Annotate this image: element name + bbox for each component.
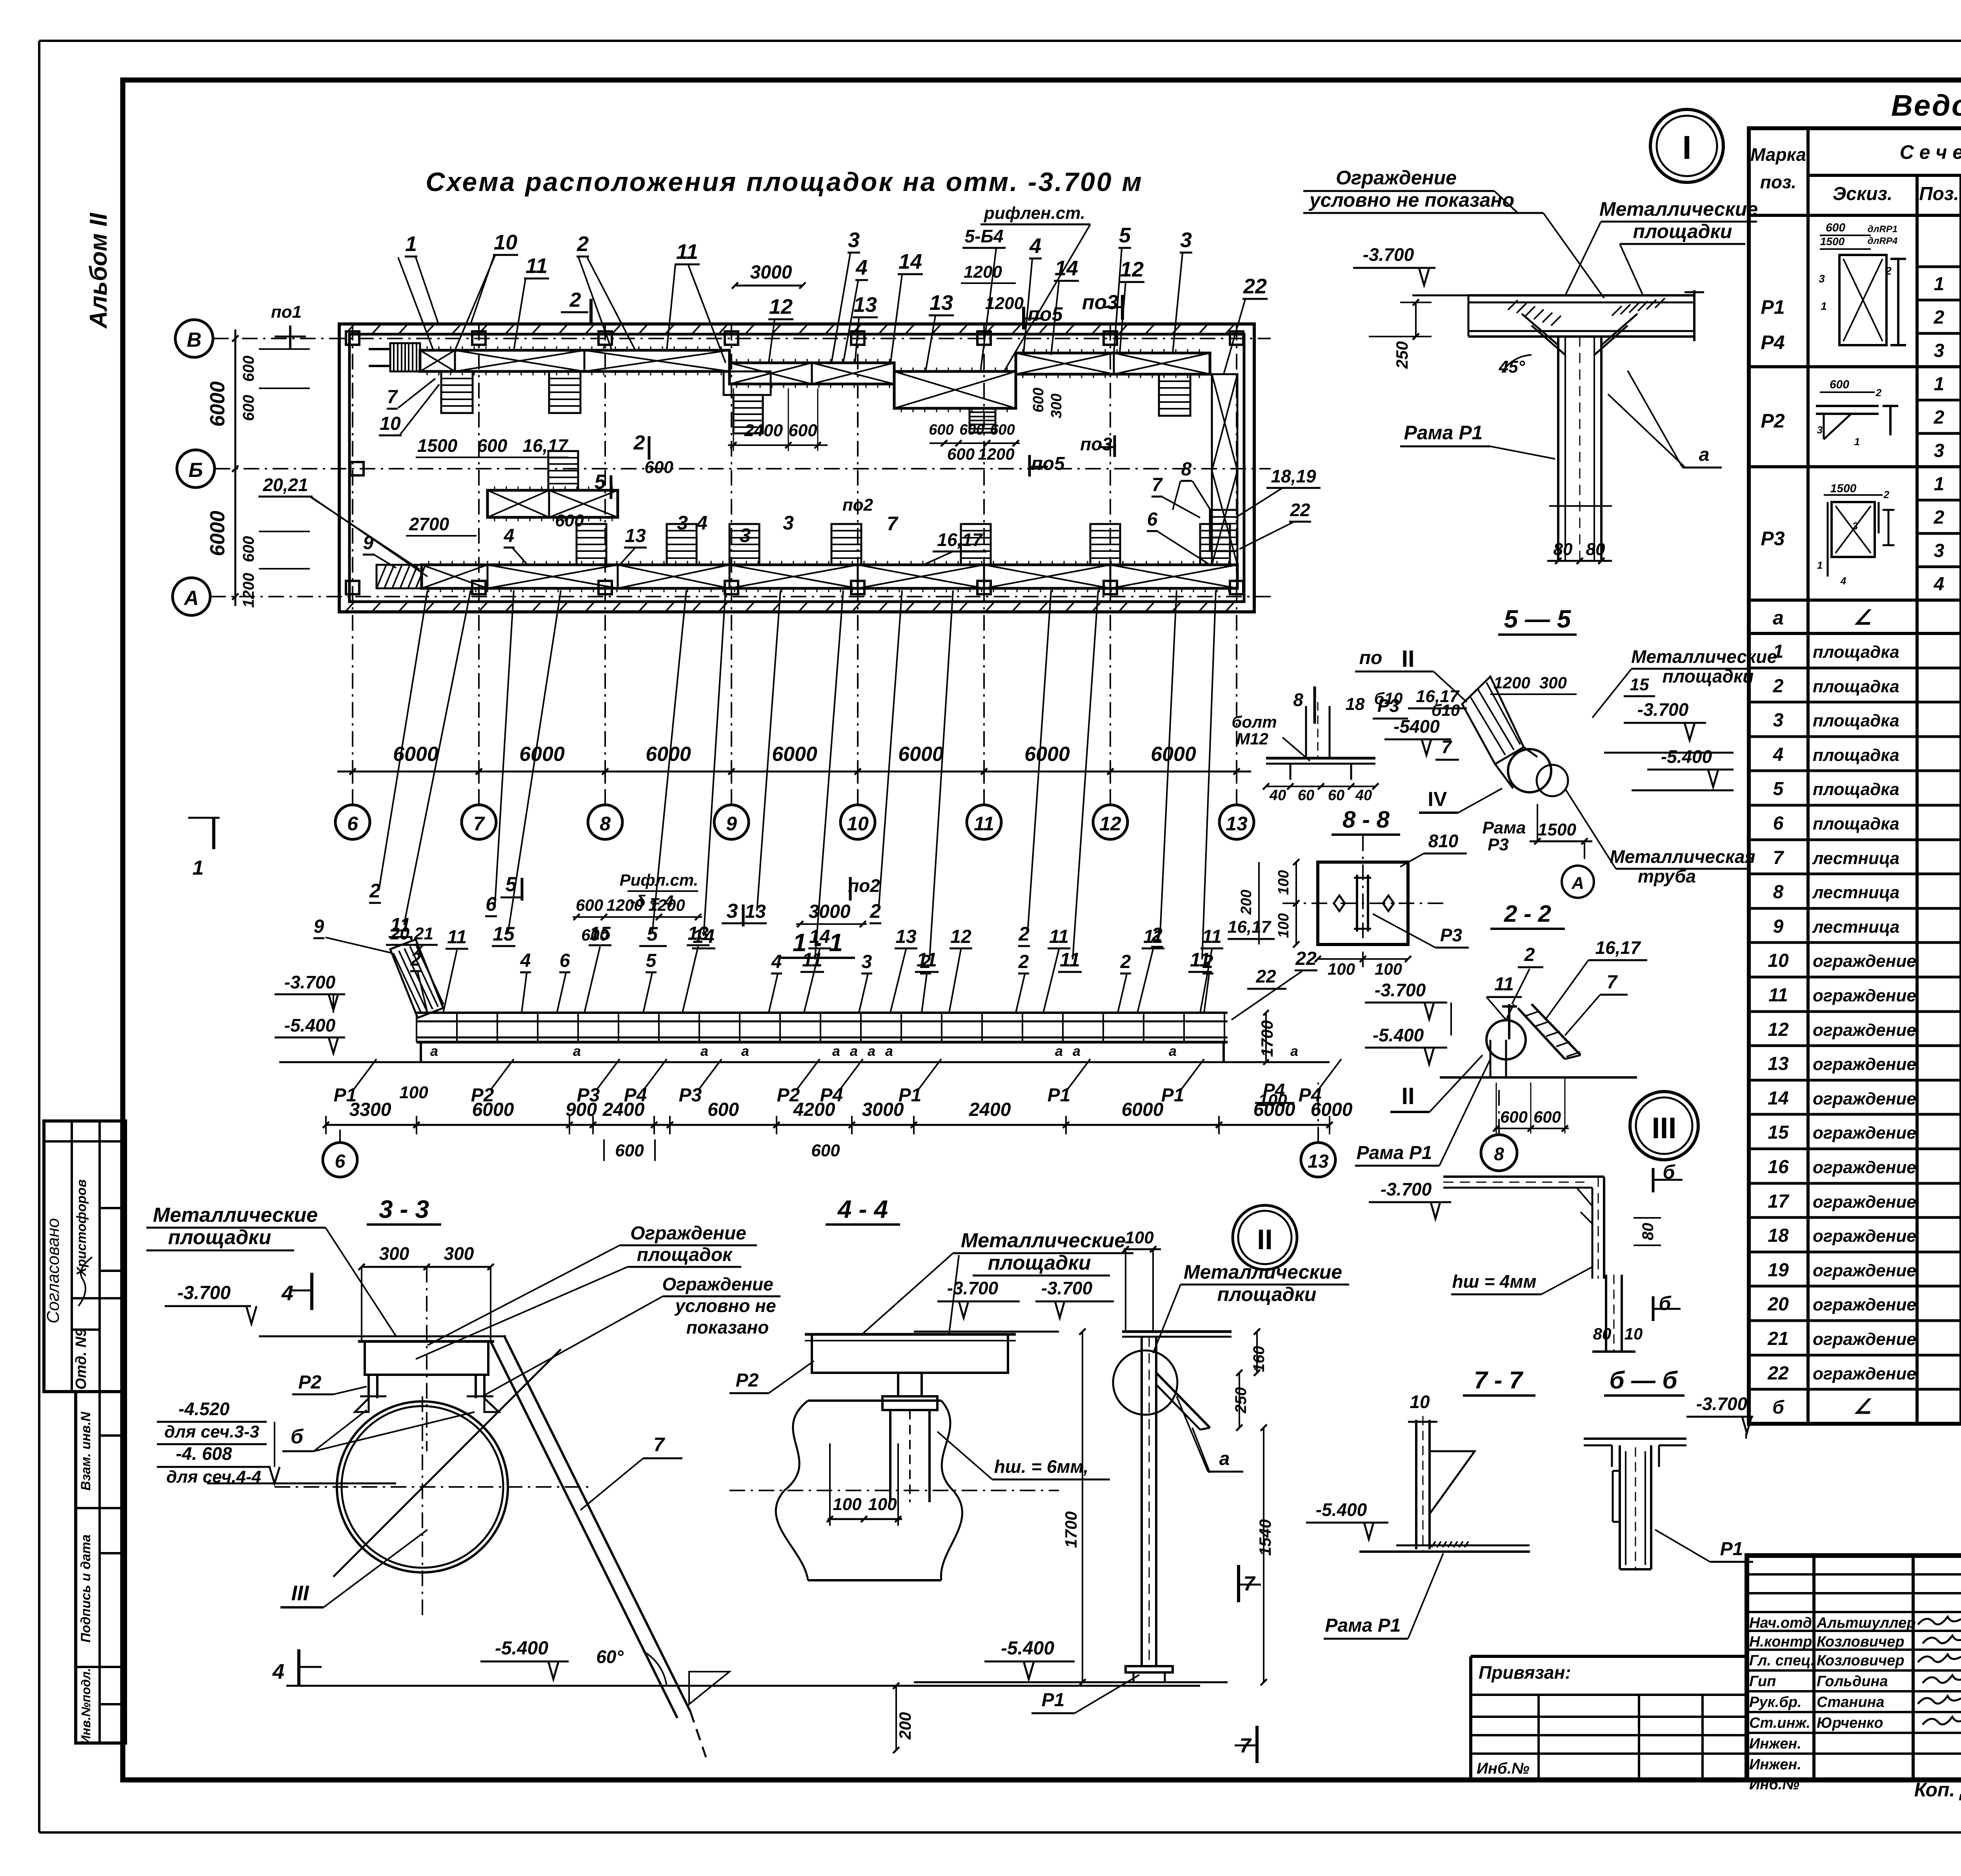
svg-text:Ограждение: Ограждение [630,1223,746,1244]
svg-text:7: 7 [1607,972,1618,993]
svg-text:600: 600 [615,1141,644,1160]
svg-text:Р3: Р3 [1440,925,1463,945]
svg-text:условно не показано: условно не показано [1308,189,1514,211]
svg-text:площадка: площадка [1813,814,1899,833]
section 5-5 title [1498,605,1577,635]
svg-text:а: а [430,1043,438,1059]
svg-text:ограждение: ограждение [1813,1192,1916,1212]
svg-text:300: 300 [379,1243,409,1264]
svg-text:-δ = 4: -δ = 4 [630,892,674,910]
svg-text:-3.700: -3.700 [284,972,336,992]
svg-text:площадка: площадка [1813,780,1899,799]
svg-text:22: 22 [1255,966,1276,986]
upper walkway dropped platform по5 [894,368,1016,412]
svg-text:4: 4 [771,952,782,972]
svg-text:11: 11 [1143,926,1163,947]
svg-text:1500: 1500 [417,435,458,456]
svg-text:600: 600 [929,422,953,438]
stair below dropped platform [970,408,995,433]
svg-text:600: 600 [1826,221,1845,234]
svg-text:4: 4 [504,526,515,546]
plan wall hatch [345,324,1235,612]
svg-text:ограждение: ограждение [1813,1158,1916,1177]
svg-text:ограждение: ограждение [1813,1364,1916,1383]
svg-text:7 - 7: 7 - 7 [1474,1367,1524,1394]
svg-text:3: 3 [1819,273,1825,285]
svg-text:IV: IV [1428,788,1447,811]
svg-text:лестница: лестница [1812,917,1899,937]
misc labels left of middle column [1228,917,1294,1103]
section 5-5 pipe elbow [1462,677,1568,796]
svg-text:10: 10 [380,413,401,434]
svg-text:ограждение: ограждение [1813,1226,1916,1246]
svg-text:5: 5 [1119,224,1131,247]
svg-text:14: 14 [1055,257,1078,280]
table sketch P1 P4 [1819,221,1906,345]
label Ограждение условно не показано I [1303,167,1604,298]
svg-text:В: В [187,329,202,351]
svg-text:2: 2 [410,949,421,970]
svg-text:а: а [700,1043,708,1059]
node II labels and dims [914,1228,1274,1763]
svg-text:Р4: Р4 [1263,1080,1285,1100]
label Металлические площадки 3-3 [146,1204,396,1336]
svg-text:600: 600 [644,458,673,477]
svg-text:1: 1 [405,232,417,256]
svg-text:Металлические: Металлические [961,1229,1126,1252]
svg-text:11: 11 [447,927,467,948]
svg-text:Гл. спец.: Гл. спец. [1749,1652,1815,1669]
svg-text:∠: ∠ [1854,606,1872,629]
svg-text:площадки: площадки [1633,220,1732,242]
svg-text:А: А [1571,873,1584,893]
svg-text:18: 18 [1346,695,1365,714]
svg-text:11: 11 [1049,926,1069,947]
svg-text:по5: по5 [1031,453,1065,474]
lower walkway left ramp [377,565,426,588]
svg-text:11: 11 [1494,974,1514,995]
svg-text:ограждение: ограждение [1813,1055,1916,1074]
svg-text:15: 15 [493,923,515,945]
svg-text:Н.контр.: Н.контр. [1749,1634,1816,1650]
svg-text:Металлические: Металлические [1599,198,1758,220]
svg-text:Схема расположения площадок: Схема расположения площадок на отм. -3.7… [426,167,1143,197]
section 1-1 grid circles [323,1083,1335,1177]
svg-text:10: 10 [494,231,517,254]
svg-text:11: 11 [676,240,698,264]
svg-text:Ст.инж.: Ст.инж. [1749,1715,1810,1731]
svg-text:2: 2 [1202,952,1213,972]
svg-text:Р1: Р1 [1048,1085,1071,1106]
svg-text:3: 3 [1934,340,1945,361]
svg-text:18: 18 [1768,1225,1789,1246]
svg-text:8: 8 [1181,459,1192,480]
node I dims and labels [1369,299,1722,564]
section 7-7 drawing [1306,1392,1530,1639]
svg-text:а: а [832,1043,840,1059]
svg-text:80: 80 [1586,540,1605,559]
section 1-1 leader labels above [313,916,1317,1020]
svg-text:Согласовано: Согласовано [44,1218,63,1323]
section 4-4 platform [805,1334,1016,1502]
svg-text:2400: 2400 [602,1099,645,1120]
row axis Б [177,450,1271,488]
section 3-3 pipe circle [275,1349,588,1620]
svg-text:ограждение: ограждение [1813,1295,1916,1314]
svg-text:Р3: Р3 [1488,835,1509,854]
upper walkway left entry hatch [369,343,420,371]
right wall vertical platform [1210,374,1237,565]
svg-text:площадки: площадки [168,1226,271,1249]
svg-text:Р3: Р3 [1761,528,1785,550]
svg-text:100: 100 [1275,870,1292,895]
svg-text:2: 2 [1934,407,1945,428]
svg-text:600: 600 [1500,1108,1528,1126]
svg-text:3300: 3300 [349,1099,391,1120]
svg-text:15: 15 [589,923,611,944]
section 3-3 angle 60 [596,1647,667,1687]
svg-text:лестница: лестница [1812,883,1899,902]
node III column lower detail [1588,1275,1681,1352]
svg-text:II: II [1401,646,1414,672]
svg-text:б10: б10 [1374,689,1403,708]
node I beam and column [1468,290,1704,561]
svg-text:7: 7 [887,513,899,535]
svg-text:4200: 4200 [793,1099,835,1120]
svg-text:-4.520: -4.520 [178,1399,230,1419]
svg-text:по3: по3 [1082,291,1119,314]
svg-text:600: 600 [1534,1108,1561,1126]
section 6-6 drawing [1584,1385,1753,1569]
section 2-2 labels [1355,937,1647,1171]
svg-text:4: 4 [520,950,531,971]
section 1-1 level marks [275,972,1276,1065]
svg-text:4: 4 [1029,234,1041,258]
svg-text:80: 80 [1593,1325,1612,1343]
svg-text:9: 9 [726,813,737,835]
svg-text:рифлен.ст.: рифлен.ст. [984,204,1085,223]
svg-text:Металлические: Металлические [1631,646,1777,667]
svg-text:Металлические: Металлические [153,1204,318,1226]
svg-text:3: 3 [1817,424,1823,436]
section 1-1 left ladder hatch [390,939,444,1018]
svg-text:6000: 6000 [772,743,817,766]
node I level -3.700 [1353,244,1471,295]
svg-text:600: 600 [990,422,1015,438]
table element rows 1-22 [1767,639,1961,1418]
table sketch P3 [1817,482,1894,587]
svg-text:а: а [1073,1043,1081,1059]
svg-text:600: 600 [811,1141,840,1160]
svg-text:80: 80 [1554,540,1573,559]
section 1-1 railing band [417,1013,1228,1042]
svg-text:Подпись и дата: Подпись и дата [78,1534,93,1643]
svg-text:-3.700: -3.700 [177,1283,231,1303]
svg-text:600: 600 [555,511,584,530]
svg-text:Гольдина: Гольдина [1817,1673,1888,1690]
svg-text:15: 15 [1768,1122,1789,1143]
svg-text:12: 12 [1120,258,1144,281]
bottom baseline of sections [286,1685,1200,1687]
svg-text:1500: 1500 [1820,235,1845,247]
svg-text:Инб.№: Инб.№ [1749,1776,1799,1793]
svg-text:300: 300 [444,1243,474,1264]
svg-text:1: 1 [1934,374,1945,395]
svg-text:площадок: площадок [637,1245,733,1265]
svg-text:4: 4 [272,1660,284,1683]
svg-text:16: 16 [1768,1157,1789,1177]
svg-text:22: 22 [1767,1363,1789,1384]
svg-text:2: 2 [1524,944,1535,965]
svg-text:45°: 45° [1499,357,1525,377]
svg-text:7: 7 [473,813,485,835]
svg-text:hш = 4мм: hш = 4мм [1452,1271,1536,1292]
section 5-5 labels [1408,646,1777,898]
svg-text:6000: 6000 [1024,743,1070,766]
svg-text:4: 4 [855,256,868,279]
svg-text:Р1: Р1 [1761,296,1785,318]
svg-text:100: 100 [1375,960,1402,978]
svg-text:ограждение: ограждение [1813,1261,1916,1280]
svg-text:длRP1: длRP1 [1868,224,1897,235]
svg-text:7: 7 [1773,848,1785,868]
section 3-3 level -3.700 [165,1283,506,1336]
svg-text:15: 15 [1630,675,1649,694]
svg-text:13: 13 [688,923,709,944]
svg-text:11: 11 [526,254,548,278]
svg-text:3: 3 [727,900,738,923]
svg-text:ограждение: ограждение [1813,1021,1916,1040]
svg-text:13: 13 [625,526,646,546]
svg-text:Р2: Р2 [298,1372,322,1393]
svg-text:по1: по1 [271,302,302,322]
section 3-3 platform [355,1341,499,1412]
svg-text:250: 250 [1393,341,1411,369]
svg-text:6: 6 [335,1151,346,1172]
stair at right end of upper band [1159,374,1190,416]
svg-text:-3.700: -3.700 [1041,1278,1093,1298]
svg-text:17: 17 [1768,1191,1790,1212]
svg-text:ограждение: ограждение [1813,1089,1916,1108]
svg-text:100: 100 [1125,1228,1154,1247]
plan bottom-left small dims 1200 600 [240,531,310,608]
svg-text:Поз.: Поз. [1919,184,1959,204]
svg-text:Рама Р1: Рама Р1 [1357,1143,1432,1163]
svg-text:600: 600 [788,421,817,440]
svg-text:-5.400: -5.400 [284,1015,336,1035]
plan horizontal dimension line 6000 x7 [337,743,1251,782]
svg-text:-3.700: -3.700 [1375,980,1426,1000]
svg-text:А: А [183,587,199,610]
svg-text:20,21: 20,21 [390,924,433,943]
svg-text:14: 14 [1768,1088,1788,1109]
svg-text:показано: показано [686,1317,769,1337]
svg-text:по5: по5 [1028,303,1063,325]
svg-text:Юрченко: Юрченко [1817,1715,1883,1731]
plan top-left small dims 600 600 [240,302,310,421]
svg-text:по2: по2 [842,495,873,515]
section 4-4 pipe cylinder [729,1401,1059,1580]
svg-text:12: 12 [769,295,793,318]
svg-text:Р2: Р2 [1761,410,1785,432]
svg-text:Р4: Р4 [1761,331,1785,353]
svg-text:III: III [1652,1112,1676,1145]
svg-text:200: 200 [896,1712,914,1740]
svg-text:600: 600 [576,896,603,914]
svg-text:-3.700: -3.700 [947,1278,999,1298]
svg-text:Р3: Р3 [679,1085,702,1106]
svg-text:Эскиз.: Эскиз. [1833,184,1893,204]
svg-text:40: 40 [1269,787,1286,804]
svg-text:2700: 2700 [409,514,449,534]
svg-text:а: а [885,1043,893,1059]
svg-text:ограждение: ограждение [1813,986,1916,1005]
svg-text:6: 6 [1773,813,1784,834]
svg-text:2400: 2400 [969,1099,1011,1120]
svg-text:7: 7 [387,387,398,408]
middle platform on row Б [488,451,618,521]
svg-text:а: а [868,1043,875,1059]
svg-text:площадки: площадки [988,1252,1091,1274]
upper walkway band segment 1 [420,346,729,375]
column grid circles 6-13 [335,322,1254,839]
section 8-8 plate [1238,831,1469,978]
svg-text:по: по [1359,648,1383,668]
svg-text:16,17: 16,17 [1595,937,1641,958]
svg-text:Ограждение: Ограждение [662,1274,773,1294]
svg-text:Ограждение: Ограждение [1336,167,1457,189]
svg-text:Ведомость: Ведомость [1891,89,1961,122]
svg-text:по2: по2 [848,875,880,896]
section 8-8 title [1332,806,1400,835]
svg-text:100: 100 [1328,960,1355,978]
svg-text:6000: 6000 [519,743,565,766]
note Коп.Доценко [1914,1779,1961,1801]
svg-text:1500: 1500 [1830,482,1857,495]
svg-text:4: 4 [1840,575,1846,587]
svg-text:100: 100 [833,1495,862,1514]
left margin lower stamp column [76,1392,126,1744]
svg-text:Марка: Марка [1750,144,1806,165]
node I circle label [1650,109,1723,182]
node III circle label [1630,1092,1698,1160]
svg-text:13: 13 [1226,813,1248,835]
section 3-3 node III label [280,1530,427,1607]
plan top leader labels [398,204,1268,374]
svg-text:длRP4: длRP4 [1868,236,1897,246]
svg-text:2: 2 [369,880,380,902]
section 3-3 label б [282,1410,475,1451]
svg-text:4: 4 [1934,574,1945,595]
svg-text:20,21: 20,21 [262,475,308,495]
svg-text:1200: 1200 [240,573,257,608]
svg-text:Инжен.: Инжен. [1749,1736,1801,1752]
svg-text:Рама Р1: Рама Р1 [1325,1615,1401,1636]
svg-text:5-Б4: 5-Б4 [964,226,1003,246]
svg-text:2: 2 [633,431,645,454]
svg-text:а: а [1290,1043,1298,1059]
svg-text:М12: М12 [1236,730,1268,748]
section 5-5 по II mark [1355,646,1467,719]
svg-text:6000: 6000 [1151,743,1196,766]
svg-text:4 - 4: 4 - 4 [837,1195,888,1223]
table header texts [1750,140,1961,212]
svg-text:600: 600 [708,1099,739,1120]
svg-text:22: 22 [1290,500,1310,520]
svg-text:а: а [741,1043,749,1059]
svg-text:1: 1 [1817,559,1823,571]
section 2-2 drawing [1440,1004,1637,1077]
svg-text:2 - 2: 2 - 2 [1504,901,1551,927]
svg-text:II: II [1257,1224,1273,1256]
svg-text:б: б [291,1425,304,1448]
table P-frame block rows [1761,274,1961,629]
row axis А [173,578,1271,615]
svg-text:160: 160 [1250,1346,1268,1372]
section 4-4 levels -3.700 [914,1278,1114,1332]
svg-text:60: 60 [1328,787,1344,804]
svg-text:13: 13 [1768,1054,1789,1074]
stairs above lower band [577,524,1230,565]
svg-text:-4. 608: -4. 608 [176,1443,232,1464]
svg-text:2: 2 [920,952,931,972]
svg-text:Р1: Р1 [1720,1539,1743,1559]
stair below upper band 2 [549,371,580,413]
section 1-1 lower chord [279,1042,1330,1062]
svg-text:12: 12 [1768,1019,1789,1040]
svg-text:2: 2 [1934,507,1945,528]
svg-text:8 - 8: 8 - 8 [1343,806,1390,833]
svg-text:а: а [573,1043,581,1059]
svg-text:2: 2 [1885,265,1892,277]
svg-text:1200: 1200 [1493,673,1530,692]
section 4-4 weld label [937,1432,1110,1479]
plan interior labels left [258,378,1321,577]
svg-text:-5.400: -5.400 [1001,1638,1054,1659]
svg-text:9: 9 [1773,916,1784,937]
svg-text:Нач.отд.: Нач.отд. [1749,1615,1816,1631]
drawing title [426,167,1143,197]
svg-text:а: а [1773,607,1784,629]
svg-text:Рама: Рама [1483,818,1526,837]
level -5.400 left [480,1638,569,1679]
svg-text:600: 600 [947,445,975,463]
svg-text:600: 600 [477,435,508,456]
svg-text:5 — 5: 5 — 5 [1504,605,1572,633]
svg-text:Рук.бр.: Рук.бр. [1749,1694,1802,1710]
label Металлические площадки node II [1153,1261,1349,1353]
svg-text:С е ч е н и е: С е ч е н и е [1900,141,1961,163]
svg-text:5: 5 [646,950,657,971]
svg-text:3 - 3: 3 - 3 [379,1195,429,1223]
svg-text:-5.400: -5.400 [1373,1025,1424,1045]
svg-text:600: 600 [240,395,257,421]
svg-text:10: 10 [1410,1392,1430,1412]
svg-text:60: 60 [1298,787,1314,804]
svg-text:3: 3 [1180,228,1192,252]
label Ограждение площадок [416,1223,757,1359]
svg-text:13: 13 [895,926,917,947]
svg-text:100: 100 [1275,913,1292,938]
svg-text:600: 600 [240,356,257,382]
svg-text:20: 20 [1767,1294,1789,1315]
svg-text:14: 14 [809,926,830,947]
svg-text:Козловичер: Козловичер [1817,1652,1905,1669]
svg-text:12: 12 [950,926,971,947]
svg-text:5: 5 [595,471,606,493]
section 2-2 title [1490,901,1565,929]
svg-text:3: 3 [1852,520,1858,532]
